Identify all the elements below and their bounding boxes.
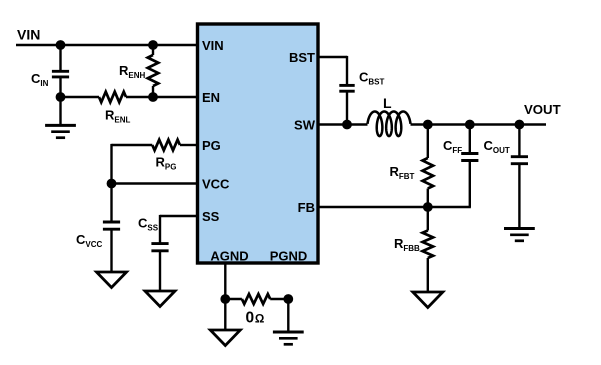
wire AGND lead to R0 (225, 298, 242, 300)
capacitor COUT (511, 157, 528, 164)
pin label BST (289, 50, 315, 65)
capacitor CSS (151, 244, 168, 251)
wire VIN input (16, 44, 196, 46)
node AGND junction (220, 294, 230, 304)
label RPG (156, 155, 177, 172)
wire RENH top lead (152, 45, 154, 55)
resistor R0 (0 ohm) (242, 294, 270, 304)
svg-text:EN: EN (202, 90, 220, 105)
label CVCC (76, 232, 103, 249)
wire RFBB bottom lead (427, 258, 429, 292)
node VCC junction (107, 179, 117, 189)
wire CVCC bottom (110, 230, 112, 272)
wire CBST bottom (346, 92, 348, 125)
svg-text:0Ω: 0Ω (246, 310, 265, 327)
label CSS (138, 216, 159, 233)
svg-text:FB: FB (298, 200, 315, 215)
wire EN to IC (153, 96, 196, 98)
ground CVCC (arrow) (97, 272, 127, 288)
net label VOUT (524, 102, 561, 117)
wire CFF bottom (469, 162, 471, 208)
svg-text:RPG: RPG (156, 155, 177, 172)
pin label SW (294, 117, 316, 132)
ground AGND (arrow) (210, 330, 240, 346)
resistor RENL (99, 92, 126, 103)
wire CIN bottom (59, 78, 61, 97)
resistor RPG (152, 140, 180, 151)
capacitor CFF (461, 154, 478, 161)
svg-text:CVCC: CVCC (76, 232, 103, 249)
svg-text:SW: SW (294, 117, 316, 132)
wire AGND to ground (224, 299, 226, 330)
capacitor CBST (339, 85, 354, 91)
label RENL (105, 108, 131, 125)
wire CVCC top (110, 184, 112, 222)
wire R0 to PGND (270, 298, 288, 300)
ground PGND (earth) (273, 332, 304, 344)
svg-text:COUT: COUT (484, 138, 510, 155)
resistor RFBB (423, 231, 434, 259)
wire FB from IC (320, 206, 471, 208)
node SW-CBST junction (342, 120, 352, 130)
resistor RENH (148, 55, 159, 86)
node SW-CFF junction (465, 120, 475, 130)
svg-text:VIN: VIN (17, 27, 40, 43)
label CBST (359, 70, 385, 87)
wire COUT top (518, 125, 520, 156)
wire CIN to ground (59, 97, 61, 125)
wire SS from IC (160, 215, 196, 217)
pin label EN (202, 90, 220, 105)
pin label VIN (202, 38, 224, 53)
label COUT (484, 138, 510, 155)
ground CIN (earth) (45, 125, 76, 137)
ground COUT (earth) (504, 229, 535, 241)
pin label FB (298, 200, 315, 215)
pin label PG (202, 138, 221, 153)
capacitor CVCC (103, 222, 120, 229)
wire PGND to ground (287, 299, 289, 332)
svg-text:CIN: CIN (31, 71, 49, 88)
wire PG from IC (180, 144, 196, 146)
svg-text:RFBT: RFBT (390, 164, 415, 181)
wire SW after L (411, 123, 547, 125)
node PGND junction (283, 294, 293, 304)
node CIN-EN junction (56, 92, 66, 102)
ground RFBB (arrow) (413, 292, 443, 308)
wire SS elbow down (159, 215, 161, 243)
node VIN-RENH junction (148, 40, 158, 50)
wire RFBB top lead (427, 207, 429, 231)
node FB junction (423, 202, 433, 212)
pin label SS (202, 209, 220, 224)
label RFBB (394, 236, 420, 253)
inductor L (368, 112, 411, 137)
svg-text:VIN: VIN (202, 38, 224, 53)
label RFBT (390, 164, 415, 181)
svg-text:PG: PG (202, 138, 221, 153)
wire ENL right lead (126, 96, 153, 98)
net label VIN (17, 27, 40, 43)
svg-text:RENH: RENH (119, 63, 146, 80)
wire CSS bottom (159, 252, 161, 292)
wire BST from IC (320, 56, 348, 58)
wire PG elbow down (110, 144, 112, 184)
wire RENH bottom lead (152, 86, 154, 97)
wire COUT bottom (518, 165, 520, 229)
capacitor CIN (52, 71, 69, 77)
label 0 ohm (246, 310, 265, 327)
wire AGND down (224, 265, 226, 300)
svg-text:PGND: PGND (270, 248, 308, 263)
wire ENL left lead (61, 96, 100, 98)
wire RFBT bottom lead (427, 189, 429, 208)
label CIN (31, 71, 49, 88)
node SW-RFBT junction (423, 120, 433, 130)
svg-text:CBST: CBST (359, 70, 385, 87)
IC U1 body (198, 24, 319, 263)
resistor RFBT (423, 158, 434, 189)
pin label VCC (202, 176, 230, 191)
svg-text:CSS: CSS (138, 216, 159, 233)
svg-text:CFF: CFF (443, 138, 462, 155)
label RENH (119, 63, 146, 80)
wire SW from IC (320, 123, 368, 125)
wire BST elbow down (346, 56, 348, 84)
svg-text:SS: SS (202, 209, 220, 224)
node EN junction (148, 92, 158, 102)
pin label AGND (210, 248, 248, 263)
svg-text:VOUT: VOUT (524, 102, 561, 117)
svg-text:AGND: AGND (210, 248, 248, 263)
svg-text:L: L (383, 95, 392, 111)
wire RFBT top lead (427, 125, 429, 159)
pin label PGND (270, 248, 308, 263)
svg-text:RFBB: RFBB (394, 236, 420, 253)
label L (383, 95, 392, 111)
svg-text:VCC: VCC (202, 176, 230, 191)
wire CFF top (469, 125, 471, 153)
wire VCC (112, 182, 197, 184)
svg-text:BST: BST (289, 50, 315, 65)
wire PG left (112, 144, 153, 146)
node VOUT junction (515, 120, 525, 130)
label CFF (443, 138, 462, 155)
wire CIN top (59, 45, 61, 70)
svg-text:RENL: RENL (105, 108, 131, 125)
ground CSS (arrow) (145, 291, 175, 307)
node VIN-CIN junction (56, 40, 66, 50)
